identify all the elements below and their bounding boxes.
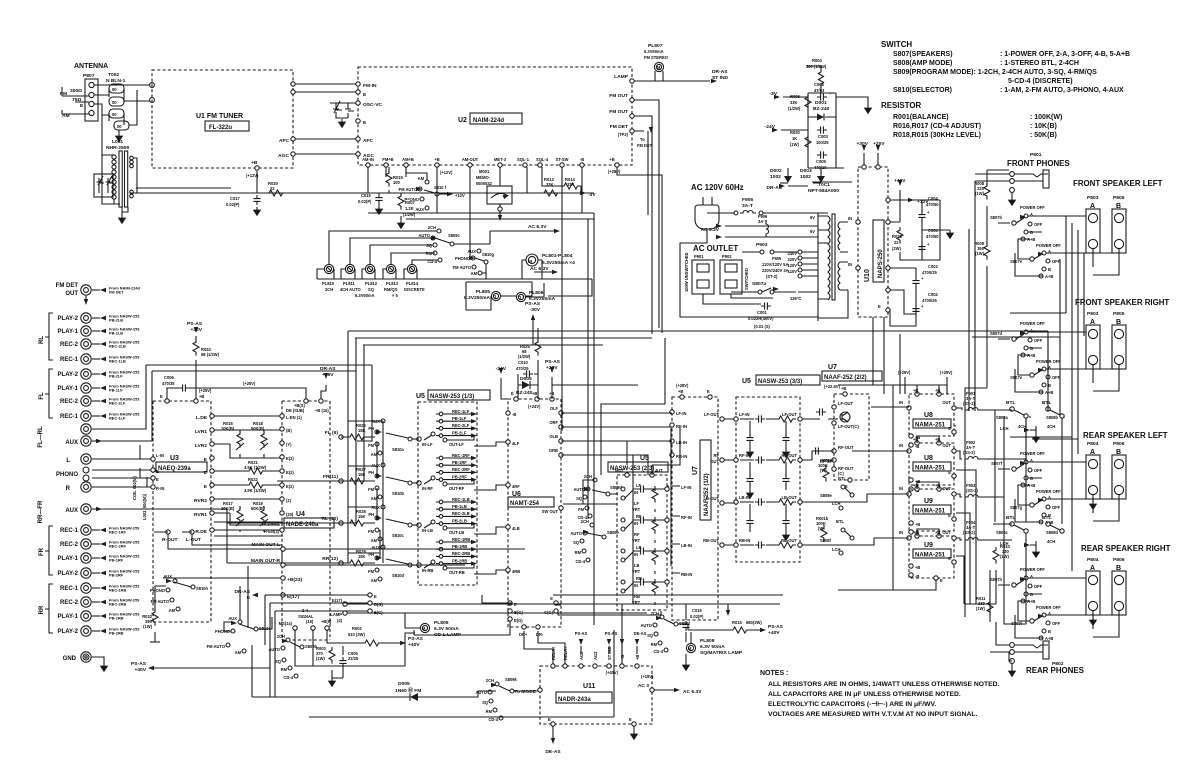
svg-text:AM: AM xyxy=(418,176,425,181)
taps xyxy=(798,250,802,254)
left ports xyxy=(506,411,510,415)
svg-text:E: E xyxy=(629,717,632,722)
svg-text:PHONO: PHONO xyxy=(56,472,78,478)
coil C013 xyxy=(140,445,147,487)
svg-text:SQL-1: SQL-1 xyxy=(517,157,530,162)
svg-text:C009: C009 xyxy=(816,159,827,164)
svg-text:IN: IN xyxy=(634,552,638,557)
svg-text:AM-IN: AM-IN xyxy=(362,157,374,162)
svg-text:: 10K(B): : 10K(B) xyxy=(1030,123,1057,130)
svg-text:S808b: S808b xyxy=(1046,415,1059,420)
svg-text:220V: 220V xyxy=(787,257,797,262)
svg-text:REC-1LF: REC-1LF xyxy=(109,416,126,421)
svg-text:OFF: OFF xyxy=(1034,468,1043,473)
svg-text:AM: AM xyxy=(371,538,378,543)
long rails xyxy=(348,331,1048,390)
port E(17) xyxy=(281,593,285,597)
svg-text:+B: +B xyxy=(199,394,204,399)
program mode switch S809d xyxy=(563,474,623,564)
wire U1-U2 links xyxy=(152,84,356,154)
svg-text:4CH: 4CH xyxy=(1047,539,1055,544)
svg-text:REC-1RF: REC-1RF xyxy=(452,453,470,458)
bottom ports xyxy=(508,601,512,605)
wire +30 +20 arrows xyxy=(864,153,878,165)
svg-text:FM AUTO: FM AUTO xyxy=(399,187,418,192)
port AC3 xyxy=(650,688,654,692)
svg-text:-3V: -3V xyxy=(769,91,777,97)
channel row LF xyxy=(734,417,738,421)
ground xyxy=(119,215,126,224)
svg-text:AC OUTLET: AC OUTLET xyxy=(693,244,738,253)
svg-text:P805: P805 xyxy=(1113,311,1125,317)
svg-text:3A-T: 3A-T xyxy=(742,203,753,209)
svg-text:P804: P804 xyxy=(1087,557,1099,563)
svg-text:AC 6.3V: AC 6.3V xyxy=(528,224,547,230)
wire caps2 xyxy=(890,268,916,326)
svg-text:PB-1LF: PB-1LF xyxy=(452,416,467,421)
svg-text:IN: IN xyxy=(899,400,903,405)
wire AC 6.3V arrows xyxy=(725,226,818,237)
svg-text:S808a: S808a xyxy=(996,415,1009,420)
svg-text:PS-AS: PS-AS xyxy=(187,321,203,327)
svg-text:4LB: 4LB xyxy=(512,526,520,531)
block U2 xyxy=(358,67,632,165)
top ports xyxy=(551,664,555,668)
svg-text:22: 22 xyxy=(894,240,899,245)
svg-text:AM: AM xyxy=(169,608,176,613)
svg-text:U8: U8 xyxy=(924,455,933,462)
pot R022 xyxy=(246,482,266,488)
svg-text:LAMP: LAMP xyxy=(330,612,342,617)
resistor R015b xyxy=(730,627,750,633)
svg-text:F905: F905 xyxy=(742,197,753,203)
svg-text:AUX: AUX xyxy=(65,508,78,514)
svg-text:A+B: A+B xyxy=(1045,520,1053,525)
port To MODE xyxy=(538,688,542,692)
svg-text:(1/2W): (1/2W) xyxy=(518,354,531,359)
svg-text:PLAY-2: PLAY-2 xyxy=(58,629,79,635)
svg-text:E: E xyxy=(374,594,377,599)
speaker feed verticals xyxy=(969,170,1062,524)
svg-text:-B: -B xyxy=(580,157,584,162)
ports U4 left xyxy=(280,414,284,418)
svg-text:BTL: BTL xyxy=(836,519,844,524)
matrix row RF xyxy=(621,518,625,522)
svg-text:100: 100 xyxy=(393,180,401,185)
svg-text:E(G): E(G) xyxy=(374,610,383,615)
lamp PL809 xyxy=(420,623,429,632)
svg-text:FM: FM xyxy=(368,569,375,574)
svg-text:SQL-4: SQL-4 xyxy=(536,157,549,162)
wire outlets xyxy=(680,294,773,317)
svg-text:S810g: S810g xyxy=(482,252,495,257)
svg-text:1.2K: 1.2K xyxy=(405,206,414,211)
svg-text:REC-1: REC-1 xyxy=(60,586,79,592)
svg-text:AC 6.3V: AC 6.3V xyxy=(701,227,720,233)
svg-text:FM: FM xyxy=(368,443,375,448)
resistor R015 xyxy=(386,170,392,187)
svg-text:+B: +B xyxy=(532,391,537,396)
svg-text:REC-1RB: REC-1RB xyxy=(109,588,126,593)
svg-text:S807e: S807e xyxy=(1010,375,1023,380)
lamp feed wires xyxy=(329,231,438,264)
svg-text:(2): (2) xyxy=(286,498,292,503)
svg-text:E: E xyxy=(160,394,163,399)
U3 left input ports xyxy=(151,457,155,461)
svg-text:NAAF-252 (1/2): NAAF-252 (1/2) xyxy=(704,473,710,516)
svg-text:RVR1: RVR1 xyxy=(194,512,207,518)
svg-text:2CH: 2CH xyxy=(428,225,436,230)
svg-text:NASW-253 (3/3): NASW-253 (3/3) xyxy=(758,379,802,385)
svg-text:(1/2W): (1/2W) xyxy=(788,106,801,111)
svg-text:ALL RESISTORS ARE IN OHMS, 1/4: ALL RESISTORS ARE IN OHMS, 1/4WATT UNLES… xyxy=(768,681,1000,688)
svg-text:RF-IN: RF-IN xyxy=(676,424,687,429)
svg-text:OUT: OUT xyxy=(942,400,951,405)
wire caps xyxy=(900,200,950,260)
svg-text:P805: P805 xyxy=(1113,195,1125,201)
svg-text:RF: RF xyxy=(714,453,720,458)
svg-text:IN: IN xyxy=(634,490,638,495)
svg-text:RB-OUT: RB-OUT xyxy=(703,538,719,543)
svg-text:AC 6.3V: AC 6.3V xyxy=(683,689,702,695)
cap C009 xyxy=(817,151,827,158)
svg-text:R015: R015 xyxy=(732,620,743,625)
switch S810f xyxy=(425,180,429,184)
junction node xyxy=(150,83,155,88)
svg-text:P901: P901 xyxy=(694,254,704,259)
svg-text:SQ: SQ xyxy=(573,540,580,545)
channel row LB xyxy=(734,500,738,504)
chain box wires xyxy=(807,66,844,168)
wire xyxy=(62,87,89,114)
svg-text:OLF: OLF xyxy=(550,406,559,411)
block U7a xyxy=(672,397,718,620)
svg-text:ANTENNA: ANTENNA xyxy=(74,63,108,70)
svg-text:NPT-584A000: NPT-584A000 xyxy=(808,188,839,194)
svg-text:PL805: PL805 xyxy=(476,289,491,295)
svg-text:FRONT SPEAKER RIGHT: FRONT SPEAKER RIGHT xyxy=(1075,298,1169,307)
svg-text:E(2): E(2) xyxy=(286,456,294,461)
svg-text:FM: FM xyxy=(368,529,375,534)
svg-text:POWER OFF: POWER OFF xyxy=(1036,243,1061,248)
svg-text:R002: R002 xyxy=(352,626,363,631)
svg-text:+B: +B xyxy=(251,160,258,166)
svg-text:OFF: OFF xyxy=(1052,621,1061,626)
svg-text:+B: +B xyxy=(841,386,846,391)
svg-text:R007: R007 xyxy=(405,200,416,205)
svg-text:+40V: +40V xyxy=(768,630,780,636)
svg-text:LF: LF xyxy=(634,501,640,506)
phono feed vertical xyxy=(247,566,249,628)
svg-text:LF-OUT: LF-OUT xyxy=(704,412,720,417)
svg-text:U10: U10 xyxy=(864,269,871,282)
svg-text:+40V: +40V xyxy=(894,178,906,184)
svg-text:VOLTAGES ARE MEASURED WITH V.T: VOLTAGES ARE MEASURED WITH V.T.V.M AT NO… xyxy=(768,711,978,718)
svg-text:AUTO: AUTO xyxy=(573,487,585,492)
block U11 xyxy=(540,666,652,724)
pot R021 xyxy=(246,468,266,474)
amp bottom E xyxy=(934,576,938,580)
right area verticals xyxy=(965,216,1084,617)
svg-text:OFF: OFF xyxy=(1034,338,1043,343)
svg-text:REC-2LB: REC-2LB xyxy=(109,344,126,349)
svg-text:(1W): (1W) xyxy=(316,656,326,661)
wire rail xyxy=(130,171,594,193)
svg-text:RM: RM xyxy=(651,642,658,647)
svg-text:: 1-AM, 2-FM AUTO, 3-PHONO, 4-: : 1-AM, 2-FM AUTO, 3-PHONO, 4-AUX xyxy=(1000,87,1124,94)
svg-text:6V: 6V xyxy=(810,215,815,220)
svg-text:B: B xyxy=(1048,629,1051,634)
svg-text:LF-IN: LF-IN xyxy=(739,412,750,417)
svg-text:S807e: S807e xyxy=(1010,259,1023,264)
svg-text:LF-OUT: LF-OUT xyxy=(782,412,798,417)
svg-text:R: R xyxy=(66,486,71,492)
svg-text:R022: R022 xyxy=(248,477,259,482)
svg-text:S808c: S808c xyxy=(996,530,1009,535)
tuner B+ selector cluster xyxy=(358,167,465,229)
svg-text:MET-3: MET-3 xyxy=(494,157,507,162)
selector buses left of U5 xyxy=(377,442,380,558)
svg-text:To MODE: To MODE xyxy=(514,689,536,695)
svg-text:: 1-POWER OFF, 2-A, 3-OFF, 4-B: : 1-POWER OFF, 2-A, 3-OFF, 4-B, 5-A+B xyxy=(1000,51,1130,58)
svg-text:REC-2: REC-2 xyxy=(60,542,79,548)
svg-text:LB: LB xyxy=(634,563,640,568)
svg-text:+19V: +19V xyxy=(322,372,334,378)
svg-text:OUT-RF: OUT-RF xyxy=(449,486,465,491)
svg-text:P803: P803 xyxy=(1087,311,1099,317)
wire PS-AS +20V xyxy=(551,377,553,385)
svg-text:(TP2): (TP2) xyxy=(618,132,629,137)
svg-text:PB-1LF: PB-1LF xyxy=(109,388,123,393)
svg-text:FM OUT: FM OUT xyxy=(609,93,628,99)
drop to selectors xyxy=(92,365,152,441)
svg-text:+B: +B xyxy=(913,483,918,488)
svg-text:R023: R023 xyxy=(892,234,903,239)
svg-text:(1W): (1W) xyxy=(976,606,986,611)
svg-text:PB-1LB: PB-1LB xyxy=(452,504,467,509)
svg-text:240V: 240V xyxy=(787,251,797,256)
svg-text:IN: IN xyxy=(634,583,638,588)
svg-text:AG2: AG2 xyxy=(593,651,598,660)
ports U10 xyxy=(856,220,860,224)
svg-text:-3V: -3V xyxy=(588,192,596,198)
lamp PL808 xyxy=(686,643,695,652)
svg-text:MAIN OUT-L: MAIN OUT-L xyxy=(251,542,280,548)
svg-text:3.9K (1/2W): 3.9K (1/2W) xyxy=(244,488,267,493)
svg-text:To: To xyxy=(640,137,645,142)
svg-text:NOTES :: NOTES : xyxy=(760,670,788,677)
svg-text:00: 00 xyxy=(112,100,117,105)
svg-text:DR-AS: DR-AS xyxy=(712,69,728,75)
svg-text:BTL: BTL xyxy=(1006,400,1016,406)
svg-text:LB-IN: LB-IN xyxy=(676,440,687,445)
svg-text:PLAY-2: PLAY-2 xyxy=(58,571,79,577)
svg-text:C016: C016 xyxy=(692,608,703,613)
svg-text:PL810: PL810 xyxy=(322,281,335,286)
svg-text:OSC-VC: OSC-VC xyxy=(363,102,382,108)
svg-text:RM: RM xyxy=(281,667,288,672)
wire FM OUT runs xyxy=(634,100,659,334)
svg-text:REC-1: REC-1 xyxy=(60,357,79,363)
jack P802 REAR PHONES xyxy=(1010,643,1015,648)
svg-text:FM AUTO: FM AUTO xyxy=(207,644,226,649)
svg-text:E: E xyxy=(948,470,951,475)
svg-text:L001: L001 xyxy=(112,139,123,145)
svg-text:A+B: A+B xyxy=(1045,636,1053,641)
svg-text:GND: GND xyxy=(63,656,77,662)
svg-text:L003 (004(M)): L003 (004(M)) xyxy=(142,493,147,520)
speaker group REAR SPEAKER RIGHT xyxy=(990,544,1171,641)
svg-text:+B: +B xyxy=(678,389,683,394)
wire bottom xyxy=(680,290,848,321)
svg-text:U4: U4 xyxy=(296,511,305,518)
channel row RF xyxy=(734,458,738,462)
svg-text:+30V: +30V xyxy=(856,141,868,147)
svg-text:D005: D005 xyxy=(398,681,410,687)
svg-text:AUX: AUX xyxy=(228,616,237,621)
svg-text:P803: P803 xyxy=(1087,195,1099,201)
caps at inputs xyxy=(802,419,838,460)
U6 bottom wires xyxy=(414,595,565,664)
svg-text:P807: P807 xyxy=(83,73,95,79)
svg-text:PLAY-1: PLAY-1 xyxy=(58,386,79,392)
svg-text:LVR1: LVR1 xyxy=(195,429,207,435)
svg-text:PL806: PL806 xyxy=(529,290,544,296)
svg-text:PS-AS: PS-AS xyxy=(768,624,784,630)
svg-text:(1W): (1W) xyxy=(143,624,153,629)
svg-text:PH: PH xyxy=(368,470,374,475)
svg-text:(+29V): (+29V) xyxy=(940,370,953,375)
svg-text:S809k: S809k xyxy=(505,677,518,682)
svg-text:R001(BALANCE): R001(BALANCE) xyxy=(893,114,949,121)
svg-text:LB-OUT: LB-OUT xyxy=(704,496,720,501)
svg-text:C002: C002 xyxy=(928,292,939,297)
svg-text:+B: +B xyxy=(915,565,920,570)
svg-text:R-IN: R-IN xyxy=(156,486,164,491)
svg-text:PHONO: PHONO xyxy=(455,256,471,261)
svg-text:P903: P903 xyxy=(756,242,768,248)
resistor R007 xyxy=(398,193,404,210)
svg-text:S810(SELECTOR): S810(SELECTOR) xyxy=(893,87,952,94)
svg-text:0500532: 0500532 xyxy=(476,181,493,186)
svg-text:: 100K(W): : 100K(W) xyxy=(1030,114,1062,121)
matrix row LB xyxy=(621,549,625,553)
svg-text:ST-SW: ST-SW xyxy=(556,157,569,162)
svg-text:MS(14): MS(14) xyxy=(279,621,293,626)
arrow E bus down xyxy=(727,604,729,612)
svg-text:4LF: 4LF xyxy=(512,441,520,446)
svg-text:DE (SUB): DE (SUB) xyxy=(286,408,305,413)
svg-text:POWER OFF: POWER OFF xyxy=(1020,205,1045,210)
speaker group FRONT SPEAKER LEFT xyxy=(990,179,1163,279)
svg-text:P801: P801 xyxy=(1030,152,1042,158)
svg-text:REC-2: REC-2 xyxy=(60,399,79,405)
svg-text:REC-2RB: REC-2RB xyxy=(109,602,126,607)
arrow PS-AS -30V xyxy=(532,318,534,345)
svg-text:M: M xyxy=(528,259,532,265)
svg-text:680(3W): 680(3W) xyxy=(746,620,762,625)
wire -3V xyxy=(783,97,868,105)
U7a output ports xyxy=(720,417,724,421)
svg-text:REAR SPEAKER RIGHT: REAR SPEAKER RIGHT xyxy=(1081,544,1171,553)
svg-text:RR: RR xyxy=(39,605,45,614)
svg-text:22/25: 22/25 xyxy=(348,656,359,661)
lamp PL801-804 xyxy=(526,254,538,266)
svg-text:2CH: 2CH xyxy=(581,519,589,524)
amp out runs to rear xyxy=(954,426,976,604)
svg-text:FL (9): FL (9) xyxy=(325,430,339,436)
wire sw out xyxy=(553,504,783,615)
svg-text:PB-2LB: PB-2LB xyxy=(109,318,123,323)
resistor R032 xyxy=(152,609,158,626)
svg-text:-30V: -30V xyxy=(530,307,541,313)
svg-text:PLAY-1: PLAY-1 xyxy=(58,614,79,620)
svg-text:22: 22 xyxy=(270,186,275,191)
lamps PL805 PL806 xyxy=(491,291,500,300)
matrix row LF xyxy=(621,487,625,491)
svg-text:S807a: S807a xyxy=(752,281,766,287)
svg-text:L-IN: L-IN xyxy=(156,453,164,458)
svg-text:0.02(P): 0.02(P) xyxy=(226,202,240,207)
svg-text:6.3V50mA: 6.3V50mA xyxy=(355,293,375,298)
svg-text:S810c: S810c xyxy=(392,533,405,538)
svg-text:DE-AS: DE-AS xyxy=(545,749,561,755)
svg-text:(15): (15) xyxy=(306,619,314,624)
port +B bottom xyxy=(255,166,259,170)
svg-text:5-CD-4 (DISCRETE): 5-CD-4 (DISCRETE) xyxy=(1008,78,1073,85)
wire +40 xyxy=(890,190,900,222)
svg-text:LF-IN: LF-IN xyxy=(676,411,687,416)
svg-text:+B: +B xyxy=(635,655,640,660)
svg-text:+B(23): +B(23) xyxy=(287,577,302,583)
svg-text:R005: R005 xyxy=(790,94,801,99)
wire -24V arrow xyxy=(500,378,502,390)
svg-text:BZ-240: BZ-240 xyxy=(813,106,830,112)
svg-text:33K: 33K xyxy=(790,100,798,105)
svg-text:SW OUT: SW OUT xyxy=(542,509,559,514)
svg-text:E: E xyxy=(550,596,553,601)
svg-text:REC-2LB: REC-2LB xyxy=(452,511,470,516)
svg-text:R016,R017 (CD-4 ADJUST): R016,R017 (CD-4 ADJUST) xyxy=(893,123,981,130)
svg-text:47/63: 47/63 xyxy=(814,88,825,93)
svg-text:AM: AM xyxy=(371,578,378,583)
wire 6V taps xyxy=(818,216,828,243)
svg-text:IN: IN xyxy=(899,443,903,448)
svg-text:FM-IN: FM-IN xyxy=(363,83,377,89)
svg-text:4CH: 4CH xyxy=(1047,424,1055,429)
svg-text:FM+B: FM+B xyxy=(382,157,393,162)
svg-text:PLAY-1: PLAY-1 xyxy=(58,556,79,562)
svg-text:OFF: OFF xyxy=(1052,259,1061,264)
svg-text:C015: C015 xyxy=(361,193,372,198)
wires group out to U6 xyxy=(474,442,506,574)
svg-text:+30V: +30V xyxy=(190,327,202,333)
svg-text:DE-AS: DE-AS xyxy=(634,631,647,636)
svg-text:U9: U9 xyxy=(924,542,933,549)
svg-text:+20V: +20V xyxy=(546,365,558,371)
svg-text:CD-4: CD-4 xyxy=(575,559,585,564)
svg-text:SQ: SQ xyxy=(368,287,375,292)
svg-text:AUX: AUX xyxy=(467,249,476,254)
svg-text:FM: FM xyxy=(368,487,375,492)
svg-text:6.3V250mA ×4: 6.3V250mA ×4 xyxy=(542,260,575,266)
svg-text:PS-AS: PS-AS xyxy=(525,301,541,307)
svg-text:6V: 6V xyxy=(810,229,815,234)
svg-text:REC-2: REC-2 xyxy=(60,342,79,348)
svg-text:REC-1RB: REC-1RB xyxy=(452,537,470,542)
amp U9 NAMA-251 xyxy=(909,536,954,578)
svg-text:PS-AS: PS-AS xyxy=(408,636,424,642)
